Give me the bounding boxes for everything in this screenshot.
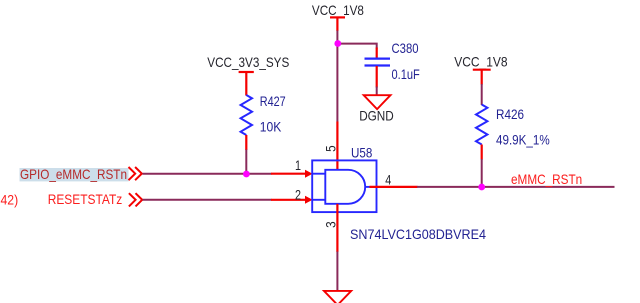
svg-text:4: 4 [385, 171, 391, 187]
svg-text:VCC_1V8: VCC_1V8 [454, 54, 508, 70]
svg-text:VCC_1V8: VCC_1V8 [312, 2, 364, 18]
node junction R426 / output wire [478, 184, 485, 191]
svg-text:42): 42) [1, 192, 19, 208]
svg-text:DGND: DGND [359, 108, 394, 124]
svg-text:SN74LVC1G08DBVRE4: SN74LVC1G08DBVRE4 [350, 226, 486, 242]
pin 5 stub (red) [336, 122, 338, 170]
wire pin 4 to eMMC_RSTn [417, 186, 615, 188]
power symbol VCC_1V8 (top) [312, 2, 364, 31]
svg-text:GPIO_eMMC_RSTn: GPIO_eMMC_RSTn [20, 166, 127, 182]
node junction at VCC_1V8 branch [334, 40, 341, 47]
power symbol VCC_3V3_SYS [207, 54, 289, 95]
wire VCC_1V8 to junction [336, 31, 338, 45]
node junction R427 / GPIO wire [243, 171, 250, 178]
pin 3 stub (red) [336, 204, 338, 252]
wire R426 to output junction [481, 159, 483, 187]
svg-text:R426: R426 [496, 106, 524, 122]
port chevron RESETSTATz [129, 193, 142, 206]
wire VCC_1V8 to R426 [481, 84, 483, 105]
wire junction to C380 [337, 44, 376, 49]
ground DGND [359, 95, 394, 123]
resistor R426 [476, 105, 487, 145]
pin stub below R427 [245, 135, 247, 150]
svg-text:VCC_3V3_SYS: VCC_3V3_SYS [207, 54, 289, 70]
pin stub below R426 [481, 145, 483, 160]
svg-text:10K: 10K [260, 119, 282, 135]
pin 4 stub (red) [370, 186, 418, 188]
pin 1 arrow [305, 170, 313, 178]
svg-text:49.9K_1%: 49.9K_1% [496, 132, 550, 148]
svg-text:0.1uF: 0.1uF [392, 66, 420, 82]
pin 2 arrow [305, 196, 313, 204]
wire cap to DGND [376, 87, 378, 96]
port chevron GPIO_eMMC_RSTn [129, 167, 142, 180]
svg-text:5: 5 [323, 145, 339, 152]
svg-text:C380: C380 [392, 40, 419, 56]
power symbol VCC_1V8 (right) [454, 54, 508, 85]
svg-text:RESETSTATz: RESETSTATz [48, 191, 123, 207]
wire GPIO_eMMC_RSTn to pin 1 [143, 173, 272, 175]
svg-text:2: 2 [295, 186, 301, 202]
ground (bottom) [324, 291, 351, 303]
wire junction down to pin 5 [336, 44, 338, 122]
wire pin 3 to ground [336, 252, 338, 292]
svg-text:R427: R427 [260, 93, 286, 109]
pin 2 stub (red) [271, 199, 306, 201]
wire R427 to junction [245, 150, 247, 174]
net label GPIO_eMMC_RSTn (highlighted) [20, 166, 129, 182]
svg-text:U58: U58 [351, 145, 372, 161]
wire RESETSTATz to pin 2 [143, 199, 272, 201]
resistor R427 [241, 95, 252, 135]
svg-text:1: 1 [295, 157, 301, 173]
op-amp U58 AND gate body [312, 160, 376, 212]
svg-text:eMMC_RSTn: eMMC_RSTn [511, 171, 582, 187]
capacitor C380 [365, 48, 391, 88]
pin 1 stub (red) [271, 173, 306, 175]
